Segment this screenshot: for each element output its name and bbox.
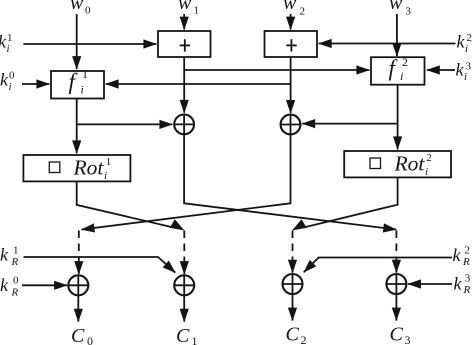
wire w2 input: [290, 14, 292, 30]
wire X3 output to C0: [77, 295, 79, 321]
wire w0 input: [76, 14, 78, 69]
node ki2 label: [457, 32, 473, 56]
function box F2: [371, 57, 425, 84]
node ki0 label: [0, 70, 15, 94]
node kR1 label: [0, 245, 19, 269]
svg-text:R: R: [11, 287, 19, 299]
svg-text:3: 3: [405, 333, 411, 345]
adder A2 plus sign: [286, 39, 296, 51]
svg-text:i: i: [104, 170, 107, 182]
node C3 label: [390, 324, 411, 345]
node kR3 label: [454, 273, 471, 296]
wire F2 output down to Rot2: [397, 85, 399, 150]
rot box Rot2: [344, 151, 451, 177]
svg-text:k: k: [453, 245, 462, 265]
svg-text:1: 1: [194, 5, 200, 17]
wire kR3 to X6: [408, 283, 452, 285]
wire F1 output down to Rot1: [76, 99, 78, 154]
svg-text:0: 0: [85, 5, 91, 17]
Rot2 label: [394, 151, 432, 178]
wire ki3 to F2: [427, 69, 455, 71]
svg-text:1: 1: [82, 67, 88, 81]
svg-text:i: i: [7, 43, 10, 55]
svg-text:1: 1: [106, 156, 112, 168]
node kR0 label: [0, 275, 19, 299]
svg-text:2: 2: [300, 6, 306, 18]
node C2 label: [286, 324, 307, 345]
svg-text:C: C: [390, 324, 404, 345]
svg-text:0: 0: [13, 275, 19, 287]
svg-text:2: 2: [465, 245, 471, 257]
xor X4: [174, 275, 194, 295]
wire ki2 to adder A2: [319, 43, 456, 45]
node w0 label: [70, 0, 91, 17]
adder A1 plus sign: [180, 39, 190, 51]
wire kR0 to X3: [22, 284, 67, 286]
wire Rot1 output diagonal to inner-left column: [77, 181, 175, 227]
wire kR2 to X5: [304, 258, 452, 273]
svg-text:w: w: [283, 0, 297, 14]
wire w1 input: [183, 14, 185, 30]
svg-text:R: R: [463, 284, 471, 296]
svg-text:i: i: [9, 81, 12, 93]
svg-text:2: 2: [402, 55, 408, 69]
svg-text:3: 3: [406, 6, 412, 18]
svg-text:C: C: [176, 325, 190, 345]
wire X4 output to C1: [183, 295, 185, 321]
function box F1: [51, 71, 104, 99]
adder A2 box: [265, 31, 318, 57]
svg-text:C: C: [71, 325, 85, 345]
wire dashed column to X3: [78, 231, 80, 262]
node C0 label: [71, 325, 93, 345]
wire ki1 to adder A1: [23, 43, 156, 45]
svg-text:2: 2: [301, 333, 307, 345]
Rot2 missing-glyph square: [370, 158, 381, 169]
svg-text:1: 1: [192, 334, 198, 345]
Rot1 label: [73, 155, 112, 182]
Rot1 missing-glyph square: [49, 162, 60, 173]
svg-text:i: i: [425, 166, 428, 178]
xor X1: [174, 115, 194, 135]
wire w3 input: [396, 14, 398, 56]
svg-text:w: w: [389, 0, 403, 14]
wire Rot2 output diagonal to inner-right column: [303, 177, 398, 227]
xor X3: [68, 275, 88, 295]
wire A2 output down to X2: [290, 57, 292, 113]
wire kR1 to X4: [24, 257, 176, 273]
svg-text:Rot: Rot: [394, 151, 426, 175]
node ki1 label: [0, 32, 13, 56]
F2 label f_i^2: [389, 55, 409, 83]
wire X6 output to C3: [395, 294, 397, 321]
xor X5: [283, 274, 303, 294]
svg-text:k: k: [0, 275, 9, 295]
wire X5 output to C2: [292, 294, 294, 321]
svg-text:0: 0: [87, 334, 93, 345]
svg-text:3: 3: [465, 273, 471, 285]
F1 label f_i^1: [69, 67, 89, 97]
wire A1 output down to X1: [183, 57, 185, 113]
wire ki0 to F1: [22, 83, 49, 85]
svg-text:1: 1: [13, 245, 19, 257]
node ki3 label: [456, 60, 472, 84]
svg-text:k: k: [454, 274, 463, 294]
node w3 label: [389, 0, 412, 18]
wire X1 output diagonal to outer-right column: [184, 134, 396, 229]
wire A2 output branch across to F1: [106, 83, 291, 85]
xor X2: [281, 115, 301, 135]
svg-text:k: k: [0, 245, 9, 265]
svg-text:i: i: [464, 71, 467, 83]
svg-text:i: i: [81, 83, 84, 97]
xor X6: [386, 274, 406, 294]
wire dashed column to X5: [292, 231, 294, 261]
svg-text:2: 2: [426, 152, 432, 164]
node C1 label: [176, 325, 198, 345]
adder A1 box: [158, 31, 211, 57]
wire dashed column to X4: [183, 231, 185, 262]
node kR2 label: [453, 245, 471, 269]
svg-text:i: i: [465, 43, 468, 55]
svg-text:i: i: [400, 69, 403, 83]
wire F2 branch to X2: [302, 123, 397, 125]
wire X2 output diagonal to outer-left column: [82, 134, 291, 229]
svg-text:Rot: Rot: [73, 155, 105, 179]
svg-text:C: C: [286, 324, 300, 345]
svg-text:w: w: [70, 0, 84, 14]
svg-text:0: 0: [9, 70, 15, 82]
wire dashed column to X6: [395, 231, 397, 261]
rot box Rot1: [23, 155, 130, 181]
node w2 label: [283, 0, 305, 18]
svg-text:w: w: [178, 0, 192, 14]
wire A1 output branch across to F2: [184, 69, 369, 71]
svg-text:R: R: [11, 256, 19, 268]
node w1 label: [178, 0, 199, 17]
svg-text:R: R: [462, 256, 470, 268]
wire F1 branch to X1: [77, 123, 173, 125]
